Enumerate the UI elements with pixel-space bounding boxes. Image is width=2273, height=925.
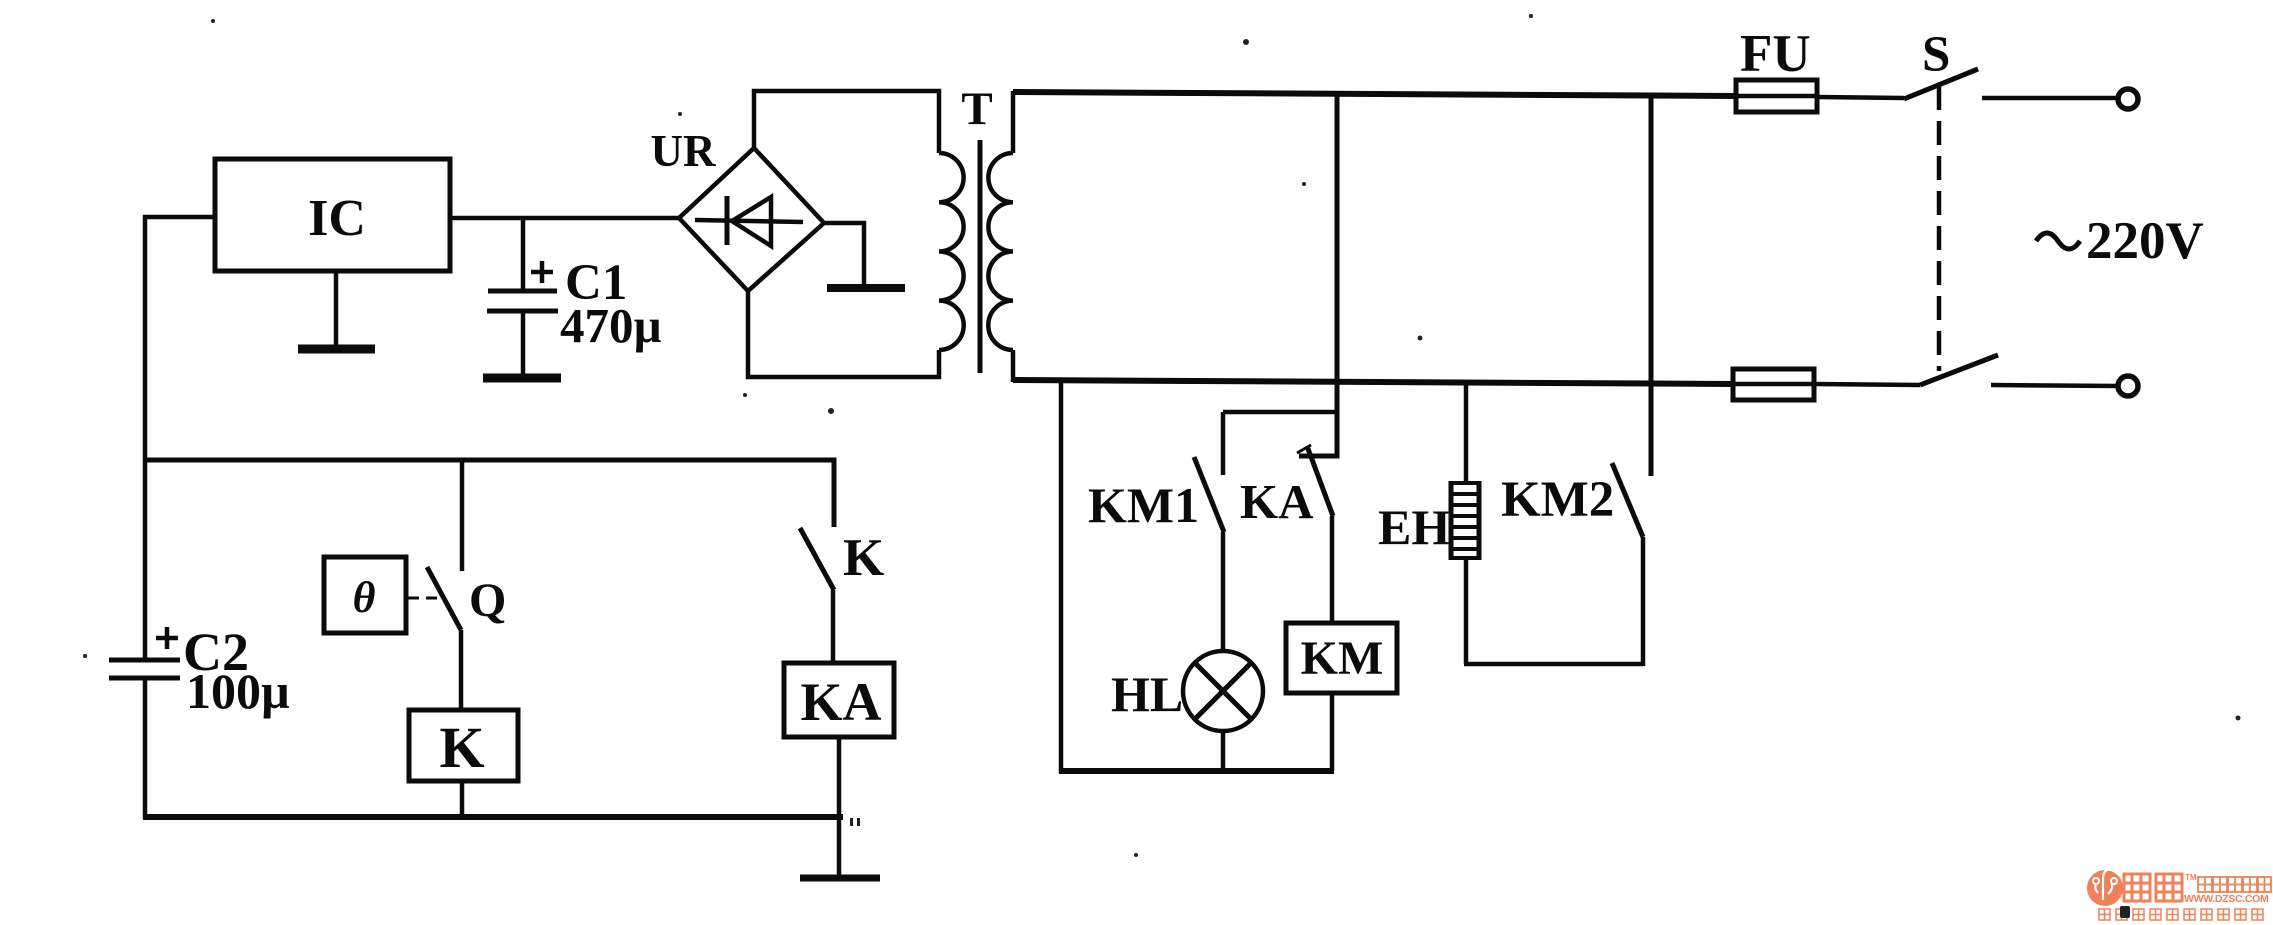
- wire HL loop bottom: [1059, 768, 1334, 774]
- svg-text:EH: EH: [1378, 499, 1450, 555]
- ground bar under IC: [298, 345, 375, 354]
- wire K coil to bottom rail: [460, 781, 465, 817]
- wire KM1 fixed lead: [1221, 412, 1226, 475]
- capacitor C1 lead top: [521, 218, 526, 289]
- svg-text:TM: TM: [2185, 873, 2197, 882]
- contact KA blade: [1307, 446, 1333, 516]
- wire bridge top to transformer primary: [754, 91, 939, 153]
- svg-text:WWW.DZSC.COM: WWW.DZSC.COM: [2184, 893, 2269, 905]
- svg-text:IC: IC: [308, 190, 366, 247]
- watermark bottom row: [2099, 909, 2263, 920]
- coil KM box: [1286, 623, 1397, 693]
- plus sign C1: [531, 270, 553, 275]
- svg-text:FU: FU: [1740, 25, 1811, 83]
- svg-text:KA: KA: [1240, 474, 1314, 529]
- watermark logo: [2087, 864, 2123, 906]
- wire KM2 moving lead: [1641, 537, 1646, 666]
- diode cathode bar: [725, 196, 730, 245]
- capacitor C1 plate bottom: [487, 309, 558, 314]
- svg-text:KA: KA: [801, 672, 882, 732]
- wire EH bottom: [1464, 560, 1469, 664]
- tilde of 220V: [2036, 233, 2080, 249]
- svg-text:T: T: [961, 83, 992, 135]
- thermostat box theta: [324, 557, 406, 633]
- wire bottom-left top rail: [145, 460, 834, 527]
- contact K blade: [800, 528, 834, 590]
- IC U1: [215, 159, 450, 271]
- wire HL loop left: [1059, 382, 1064, 773]
- wire left bus below C2: [143, 680, 148, 819]
- heater EH element: [1449, 481, 1481, 560]
- svg-text:S: S: [1922, 27, 1950, 83]
- transformer core: [978, 140, 983, 373]
- wire switch top to terminal: [1982, 96, 2119, 101]
- wire IC right to bridge: [450, 216, 679, 221]
- svg-text:470µ: 470µ: [560, 298, 662, 353]
- transformer T secondary winding: [988, 153, 1013, 350]
- lamp HL cross: [1195, 663, 1252, 720]
- IC ground stem: [334, 271, 339, 346]
- fuse FU bottom: [1733, 369, 1814, 400]
- wire bridge bottom to primary bottom: [748, 291, 939, 377]
- wire EH branch top: [1464, 383, 1469, 481]
- contact KM2 blade: [1612, 463, 1643, 537]
- svg-text:100µ: 100µ: [186, 663, 290, 719]
- terminal bottom circle: [2118, 376, 2138, 396]
- wire bridge right to ground: [824, 223, 864, 285]
- wire KM1 to lamp: [1221, 532, 1226, 651]
- svg-text:KM: KM: [1301, 632, 1384, 685]
- diode inside UR axis: [695, 220, 803, 222]
- wire K to KA coil: [831, 590, 836, 663]
- terminal top circle: [2118, 89, 2138, 109]
- ground bar under C1: [483, 374, 561, 383]
- wire secondary bottom lead: [1011, 350, 1016, 382]
- wire KA coil to ground: [837, 737, 842, 878]
- wire switch bottom to terminal: [1991, 385, 2119, 386]
- svg-text:θ: θ: [353, 573, 376, 622]
- wire fuse2 to switch: [1814, 384, 1920, 385]
- bridge rectifier UR diamond: [679, 148, 824, 291]
- wire node bus down at 1337: [1299, 93, 1337, 456]
- capacitor C1 lead bottom: [521, 311, 526, 374]
- wire lamp bottom: [1221, 731, 1226, 773]
- watermark small chars row1: [2198, 877, 2271, 892]
- wire secondary top lead: [1011, 91, 1016, 153]
- svg-text:KM2: KM2: [1501, 472, 1614, 528]
- ground bar at bridge: [827, 284, 905, 292]
- switch S bottom blade: [1920, 355, 1998, 385]
- svg-text:K: K: [843, 529, 884, 587]
- wire KM coil bottom: [1330, 693, 1335, 771]
- transformer T primary winding: [939, 153, 964, 350]
- wire Q to K coil: [459, 630, 464, 710]
- wire KA to KM coil: [1330, 516, 1335, 623]
- capacitor C2 plate top: [109, 658, 180, 663]
- svg-text:HL: HL: [1111, 666, 1183, 722]
- wire fuse1 to switch: [1817, 97, 1904, 98]
- contact Q blade: [427, 567, 461, 630]
- svg-text:K: K: [439, 715, 484, 780]
- wire secondary top rail: [1013, 92, 1736, 96]
- wire IC left to left bus: [145, 217, 215, 659]
- wire EH loop bottom: [1464, 662, 1643, 667]
- svg-text:220V: 220V: [2086, 212, 2204, 270]
- capacitor C2 plate bottom: [109, 676, 180, 681]
- wire bottom-left bottom rail: [143, 814, 843, 820]
- svg-text:UR: UR: [651, 126, 716, 176]
- switch S link dashed: [1937, 86, 1942, 371]
- contact KA blade tick: [1297, 445, 1311, 453]
- ground bar under KA: [800, 875, 880, 882]
- contact KM1 blade: [1194, 457, 1224, 532]
- diode triangle: [732, 197, 771, 246]
- svg-text:KM1: KM1: [1088, 477, 1199, 533]
- watermark big chars: [2124, 874, 2182, 901]
- plus sign C2: [156, 636, 178, 641]
- fuse FU top: [1736, 80, 1817, 112]
- wire Q fixed lead: [460, 460, 465, 571]
- svg-text:Q: Q: [469, 574, 506, 627]
- coil K box: [409, 710, 518, 781]
- capacitor C1 plate top: [488, 289, 557, 294]
- wire secondary bottom rail: [1013, 380, 1733, 384]
- dashed link theta to Q: [406, 597, 419, 600]
- wire KM2 fixed lead down at 1651: [1649, 94, 1654, 476]
- coil KA box: [784, 663, 894, 737]
- wire KM1 branch jog: [1223, 410, 1336, 415]
- lamp HL circle: [1183, 651, 1263, 731]
- switch S top blade: [1904, 69, 1978, 99]
